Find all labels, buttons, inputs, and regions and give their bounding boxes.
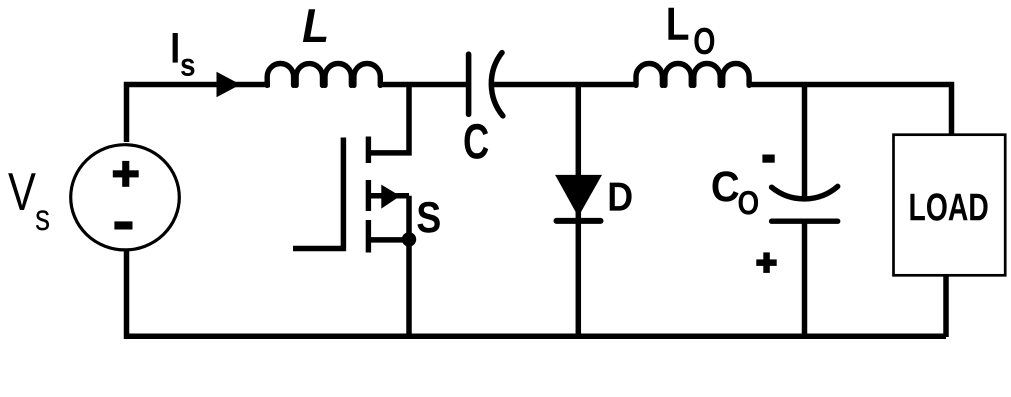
transistor S channel segment top	[366, 137, 371, 164]
node S junction dot	[402, 232, 416, 246]
wire top rail between C and Lo	[492, 82, 638, 88]
label L (italic)	[303, 9, 327, 42]
capacitor Co curved plate	[772, 186, 838, 198]
transistor S gate lead and gate bar	[293, 138, 343, 249]
capacitor Co bottom wire	[802, 221, 808, 337]
transistor arrow	[381, 185, 400, 209]
wire Vs bottom, bottom rail	[127, 251, 947, 336]
label Lo: O subscript	[694, 28, 714, 55]
wire LOAD bottom	[943, 275, 949, 337]
transistor S channel segment bottom	[366, 220, 371, 253]
capacitor Co top wire	[802, 85, 808, 202]
Vs plus sign	[113, 170, 139, 177]
label Is: I	[173, 33, 178, 63]
label S	[417, 202, 439, 233]
label D	[610, 183, 632, 211]
wire MOSFET source horizontal	[368, 237, 409, 243]
wire top-left corner and top rail left	[127, 85, 271, 143]
wire MOSFET source down to bottom rail	[406, 196, 412, 337]
diode D vertical wire	[576, 85, 582, 338]
wire MOSFET body connection	[368, 193, 409, 199]
capacitor Co straight plate	[772, 218, 838, 223]
label Vs: V	[8, 173, 36, 210]
diode D triangle	[555, 175, 602, 217]
wire top rail between L and C	[382, 82, 467, 88]
wire MOSFET drain from rail	[369, 85, 410, 153]
voltage source Vs circle	[71, 145, 180, 250]
label Co: O subscript	[739, 191, 759, 215]
LOAD box	[894, 135, 1006, 276]
label Vs: s subscript	[36, 210, 49, 230]
capacitor C left plate	[466, 54, 472, 114]
label LOAD	[910, 193, 987, 220]
inductor L	[267, 64, 380, 86]
diode D cathode bar	[557, 218, 601, 224]
label Is: s subscript	[181, 59, 194, 76]
transistor S channel segment middle	[366, 180, 371, 211]
Co minus sign	[762, 155, 774, 163]
wire top rail right with corner down to LOAD	[749, 85, 952, 136]
label Co: C	[713, 171, 739, 201]
label Lo: L	[668, 8, 688, 40]
capacitor C right curved plate	[491, 53, 503, 116]
Vs minus sign	[114, 221, 132, 229]
inductor Lo	[636, 63, 749, 85]
Co plus sign	[756, 259, 776, 266]
current arrow Is	[217, 72, 241, 98]
label C	[465, 124, 489, 159]
